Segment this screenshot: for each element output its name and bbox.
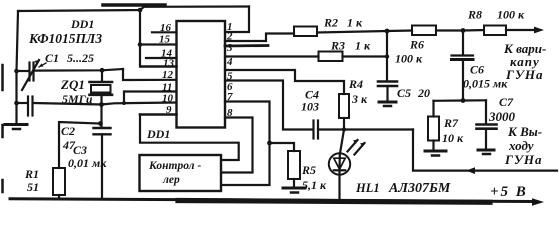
pin 13 <box>141 65 177 68</box>
svg-text:C7: C7 <box>499 95 514 109</box>
scan artifact left ticks <box>1 65 4 90</box>
svg-text:C6: C6 <box>470 63 484 77</box>
svg-text:DD1: DD1 <box>146 127 170 141</box>
pin 5 <box>225 70 344 94</box>
svg-text:7: 7 <box>227 91 233 103</box>
svg-text:R4: R4 <box>348 77 363 91</box>
wire R8 out with arrow <box>506 29 537 31</box>
svg-text:К Вы-: К Вы- <box>507 124 542 139</box>
pin 4 wire to R3 <box>225 55 319 57</box>
svg-text:ZQ1: ZQ1 <box>60 77 85 92</box>
crystal ZQ1 <box>101 70 103 81</box>
svg-text:0,015 мк: 0,015 мк <box>463 77 508 91</box>
scan artifact top dash <box>103 3 165 7</box>
svg-text:100 к: 100 к <box>395 52 423 66</box>
wire C3 column <box>100 105 102 128</box>
svg-text:20: 20 <box>417 86 430 100</box>
wire R1 top <box>59 122 101 168</box>
svg-text:1 к: 1 к <box>347 16 363 30</box>
svg-text:16: 16 <box>160 22 172 34</box>
svg-text:3000: 3000 <box>488 109 516 124</box>
controller box <box>140 155 222 191</box>
svg-text:R6: R6 <box>409 38 424 52</box>
resistor R2 <box>294 27 317 37</box>
pin 6 <box>225 81 313 130</box>
ground below R5 <box>283 187 305 190</box>
svg-text:HL1: HL1 <box>355 181 380 195</box>
wire output to VCO <box>413 130 557 171</box>
pin 2 <box>225 34 294 42</box>
node C2 wire junction <box>14 101 19 106</box>
svg-text:Контрол -: Контрол - <box>148 160 201 172</box>
svg-text:9: 9 <box>166 104 172 116</box>
node C5 top <box>385 29 390 34</box>
svg-text:R3: R3 <box>330 39 345 53</box>
svg-text:5,1 к: 5,1 к <box>302 178 327 192</box>
capacitor C1 (trimmer) <box>28 63 30 81</box>
svg-text:C2: C2 <box>61 124 75 138</box>
svg-text:C1: C1 <box>45 51 59 65</box>
svg-text:10 к: 10 к <box>442 131 464 145</box>
svg-text:ходу: ходу <box>508 138 534 153</box>
svg-text:3: 3 <box>226 42 233 54</box>
svg-text:R5: R5 <box>301 163 316 177</box>
svg-text:лер: лер <box>162 174 180 186</box>
capacitor C3 <box>94 127 111 129</box>
wire C1 row <box>17 70 29 72</box>
svg-text:10: 10 <box>162 93 174 105</box>
svg-text:R7: R7 <box>443 116 459 130</box>
wire rail to pin15/13 vertical <box>140 10 141 67</box>
wire pin1 drop from rail <box>226 7 249 33</box>
svg-text:5...25: 5...25 <box>67 51 94 65</box>
svg-text:100 к: 100 к <box>497 8 525 22</box>
ground below C5 <box>379 101 396 104</box>
node C6 top <box>461 28 466 33</box>
node C1 wire junction <box>14 69 19 74</box>
pin 7 <box>221 102 270 186</box>
op-amp U1 : IC DD1 body <box>177 21 226 128</box>
svg-text:4: 4 <box>226 56 233 68</box>
node R3 join <box>385 54 389 58</box>
svg-text:51: 51 <box>27 180 39 194</box>
pin 15 <box>140 43 177 45</box>
svg-text:R1: R1 <box>24 167 39 181</box>
capacitor C4 <box>312 121 314 139</box>
node C6 bottom <box>461 98 466 103</box>
pin 14 <box>146 57 177 59</box>
ground below R7 <box>425 150 446 153</box>
resistor R3 <box>319 52 343 62</box>
resistor R4 <box>339 94 349 118</box>
svg-text:8: 8 <box>227 107 233 119</box>
LED HL1 <box>340 130 344 154</box>
resistor R7 <box>428 117 439 141</box>
capacitor C6 <box>452 54 474 56</box>
resistor R1 <box>53 168 65 195</box>
svg-text:ГУНа: ГУНа <box>505 67 544 82</box>
node R1 top junction <box>98 121 103 126</box>
svg-text:АЛ307БМ: АЛ307БМ <box>388 181 451 196</box>
wire top supply rail <box>18 7 249 12</box>
capacitor C7 <box>485 100 487 124</box>
wire C6 column <box>462 31 464 56</box>
node LED top <box>342 127 346 131</box>
svg-text:12: 12 <box>162 69 174 81</box>
wire C6 node horizontal <box>434 99 487 102</box>
resistor R6 <box>412 26 436 36</box>
svg-text:3 к: 3 к <box>351 92 368 106</box>
wire pin11 branch <box>124 92 177 104</box>
wire +5V bottom rail <box>10 199 535 202</box>
ground left below C2 wire <box>5 123 27 126</box>
svg-text:13: 13 <box>163 58 175 70</box>
wire C4 node to output corner <box>344 128 413 130</box>
wire R7 drop <box>432 101 434 117</box>
capacitor C5 <box>378 80 397 83</box>
svg-text:C3: C3 <box>73 143 87 157</box>
wire left vertical (C1/C2 column) <box>17 11 19 122</box>
svg-text:1 к: 1 к <box>355 39 371 53</box>
node pin11 branch <box>122 101 126 105</box>
wire C5 column <box>386 31 388 81</box>
node crystal top <box>100 68 105 73</box>
wire to R5 <box>270 143 295 151</box>
wire crystal bottom to pin10 <box>102 103 177 105</box>
pin 8 <box>221 118 253 173</box>
svg-text:15: 15 <box>159 34 171 46</box>
wire R2 to R6 <box>317 31 412 33</box>
node R5 branch <box>267 141 272 146</box>
svg-text:0,01 мк: 0,01 мк <box>68 156 107 170</box>
svg-text:КФ1015ПЛ3: КФ1015ПЛ3 <box>28 31 102 46</box>
wire R6 to R8 <box>436 29 484 32</box>
pin 9 <box>140 113 177 116</box>
svg-text:2: 2 <box>226 31 233 43</box>
svg-text:+5 В: +5 В <box>490 184 528 200</box>
wire C2 row <box>17 102 28 104</box>
svg-text:R8: R8 <box>467 8 482 22</box>
resistor R5 <box>288 151 300 179</box>
pin 3 stub <box>225 44 268 47</box>
node crystal bottom <box>99 102 104 107</box>
svg-text:ГУНа: ГУНа <box>504 152 543 167</box>
pin 16 <box>152 31 177 33</box>
wire R3 to C5 column <box>343 55 388 57</box>
ground below C7 <box>478 149 494 152</box>
wire pin12 jog down <box>123 69 177 80</box>
resistor R8 <box>484 26 506 36</box>
node rail-left vertical junction <box>138 8 143 13</box>
svg-text:C5: C5 <box>397 86 411 100</box>
svg-text:DD1: DD1 <box>70 17 94 31</box>
capacitor C2 <box>27 97 29 116</box>
svg-text:103: 103 <box>301 100 319 114</box>
wire pin9 to controller <box>140 115 239 161</box>
LED arrows <box>348 140 358 152</box>
svg-text:R2: R2 <box>323 16 338 30</box>
